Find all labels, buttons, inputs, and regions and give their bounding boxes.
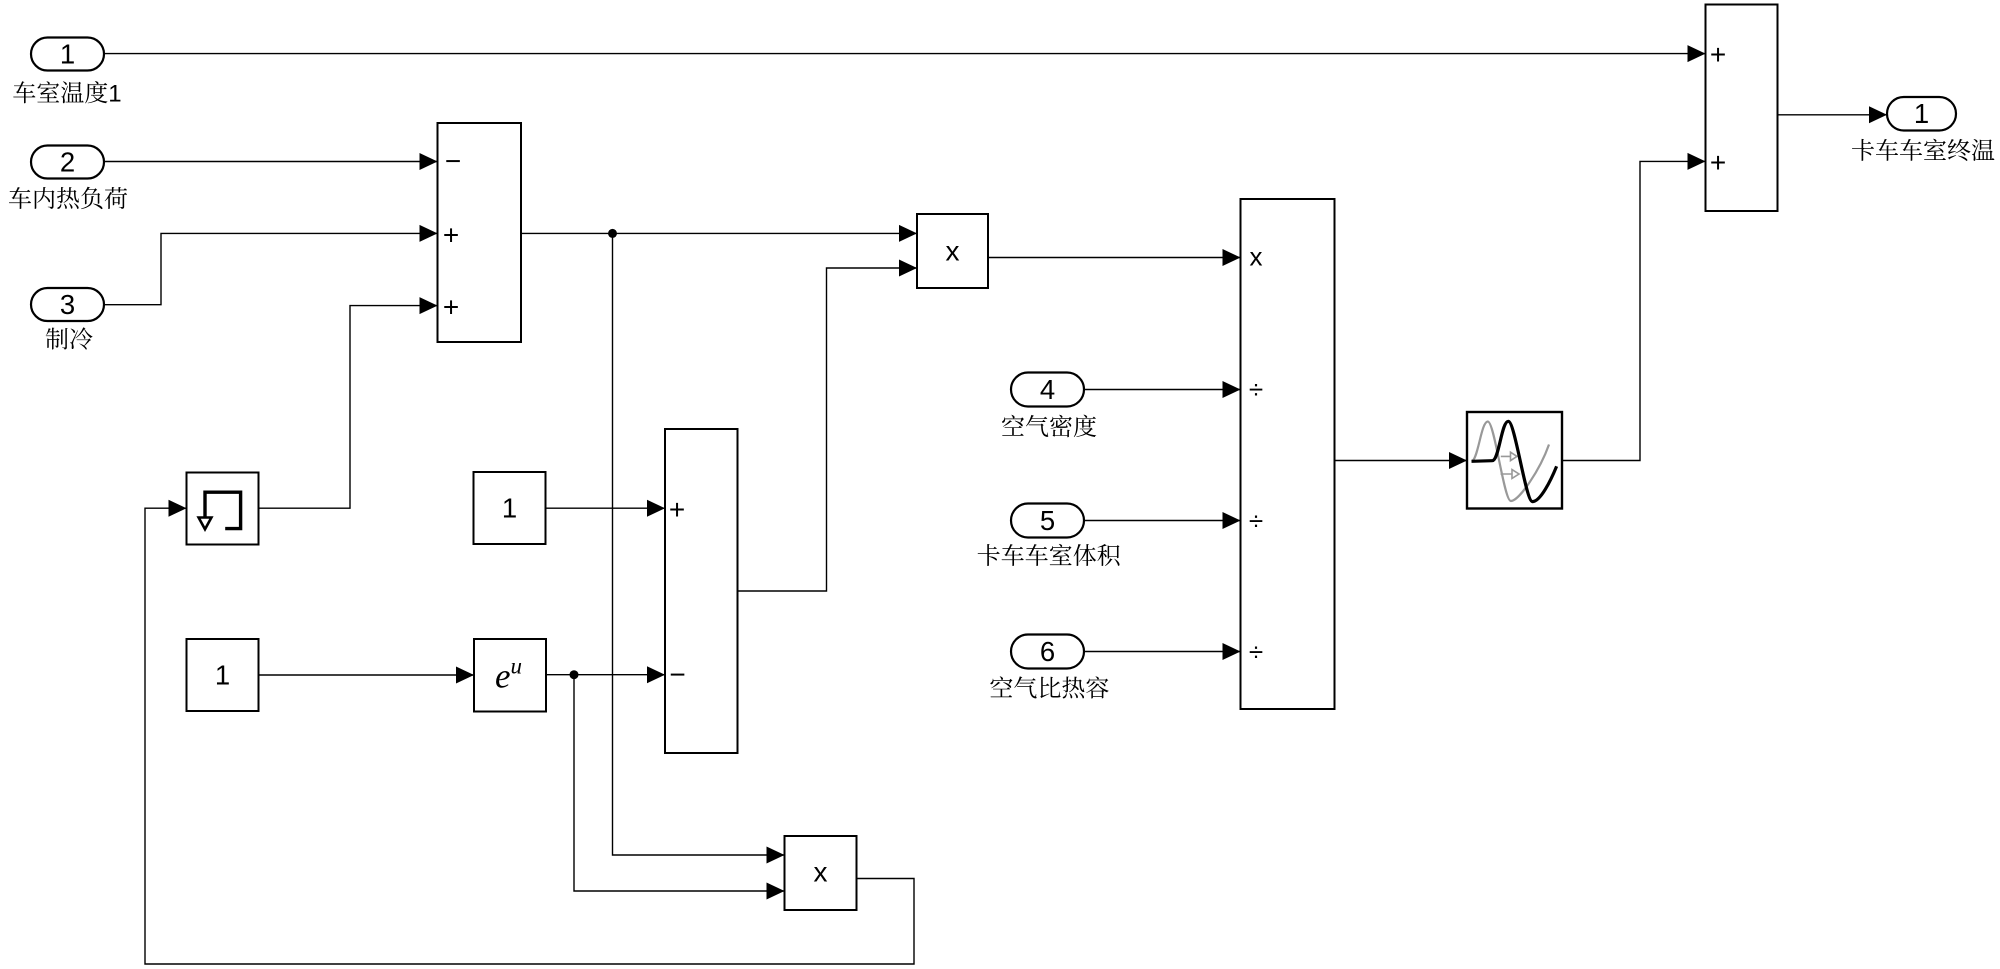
junction B: [570, 670, 579, 679]
svg-text:÷: ÷: [1249, 637, 1263, 667]
label 空气密度: [1002, 415, 1096, 438]
svg-text:+: +: [1710, 147, 1726, 178]
transport delay icon arrows: [1501, 452, 1520, 478]
svg-text:x: x: [1250, 242, 1263, 272]
svg-text:+: +: [443, 219, 459, 250]
svg-text:x: x: [814, 856, 828, 887]
svg-text:−: −: [669, 659, 685, 690]
svg-text:÷: ÷: [1249, 374, 1263, 404]
svg-text:1: 1: [108, 80, 121, 107]
label 车室温度1: [13, 80, 121, 107]
svg-text:1: 1: [1914, 98, 1929, 129]
product block Product2: [785, 836, 857, 910]
constant block Constant1: [474, 472, 546, 544]
sum block Sum2: [665, 429, 738, 753]
wire Sum2 to Product1 input2: [738, 268, 918, 591]
inport 2: [31, 146, 104, 179]
svg-text:4: 4: [1040, 374, 1055, 405]
wire Inport2 to Sum1 input1: [104, 161, 438, 163]
inport 1: [31, 38, 104, 71]
svg-text:+: +: [443, 291, 459, 322]
svg-text:6: 6: [1040, 636, 1055, 667]
Memory icon: [199, 492, 241, 529]
svg-text:+: +: [669, 494, 685, 525]
memory block Memory: [187, 473, 259, 545]
wire Inport5 to Divide input3: [1084, 520, 1241, 522]
wire junction B to Product2 input2: [574, 675, 785, 891]
svg-text:1: 1: [60, 38, 75, 69]
wire Inport4 to Divide input2: [1084, 389, 1241, 391]
inport 4: [1011, 373, 1084, 407]
junction A: [608, 229, 617, 238]
transport delay block: [1467, 412, 1562, 509]
transport delay icon gray sine: [1472, 422, 1550, 502]
inport 5: [1011, 504, 1084, 538]
svg-text:5: 5: [1040, 505, 1055, 536]
wire Constant2 to MathFunction eu: [259, 674, 475, 676]
wire Product1 to Divide input1: [988, 257, 1241, 259]
inport 3: [31, 288, 104, 321]
svg-text:x: x: [946, 236, 960, 267]
sum block Sum3: [1706, 5, 1778, 212]
wire Inport1 to Sum3 input1: [104, 53, 1706, 55]
wire Sum3 to Outport1: [1778, 114, 1888, 116]
wire Product2 feedback to Memory: [145, 508, 914, 964]
wire MathFunction eu to Sum2 input2: [546, 674, 665, 676]
eu label: [495, 654, 522, 696]
svg-text:u: u: [511, 654, 523, 679]
transport delay icon black sine: [1472, 421, 1557, 501]
wire Divide to TransportDelay: [1335, 460, 1468, 462]
svg-text:2: 2: [60, 146, 75, 177]
inport 6: [1011, 635, 1084, 669]
wire Inport3 to Sum1 input2: [104, 233, 438, 304]
wire Memory to Sum1 input3: [259, 306, 438, 509]
label 制冷: [46, 327, 93, 349]
svg-text:+: +: [1710, 39, 1726, 70]
wire TransportDelay to Sum3 input2: [1562, 161, 1706, 460]
math function block eu: [474, 639, 546, 712]
constant block Constant2: [187, 639, 259, 711]
label 车内热负荷: [9, 187, 127, 209]
svg-text:3: 3: [60, 289, 75, 320]
svg-text:1: 1: [215, 659, 230, 690]
svg-text:÷: ÷: [1249, 506, 1263, 536]
label 卡车车室体积: [978, 544, 1120, 566]
svg-text:−: −: [445, 146, 461, 177]
svg-text:1: 1: [502, 492, 517, 523]
svg-text:e: e: [495, 657, 511, 696]
wire Inport6 to Divide input4: [1084, 651, 1241, 653]
wire junction A to Product2 input1: [613, 233, 785, 855]
divide block Divide: [1241, 199, 1335, 709]
wire Constant1 to Sum2 input1: [546, 507, 666, 509]
product block Product1: [917, 214, 988, 288]
wire Sum1 to Product1 input1: [521, 232, 917, 234]
outport 1: [1887, 97, 1956, 131]
label 空气比热容: [990, 676, 1108, 698]
label 卡车车室终温: [1852, 139, 1994, 161]
sum block Sum1: [438, 123, 522, 342]
